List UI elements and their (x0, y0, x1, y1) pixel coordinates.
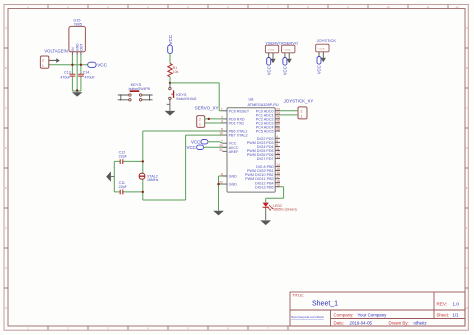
svg-text:VCC: VCC (191, 139, 200, 144)
svg-text:int.hdr: int.hdr (268, 49, 274, 52)
svg-text:Sheet_1: Sheet_1 (312, 301, 338, 308)
svg-text:1.0: 1.0 (453, 301, 460, 306)
svg-text:H: H (466, 306, 468, 310)
svg-text:2: 2 (199, 117, 201, 121)
svg-text:TITLE:: TITLE: (292, 293, 304, 298)
svg-text:10: 10 (219, 132, 223, 136)
svg-text:PD1 TXD: PD1 TXD (229, 121, 245, 125)
svg-text:PC6 RESET: PC6 RESET (229, 109, 250, 113)
svg-text:E: E (5, 186, 7, 190)
svg-text:B: B (466, 66, 468, 70)
svg-text:11: 11 (426, 5, 429, 9)
svg-text:470uF: 470uF (85, 75, 96, 79)
svg-text:JOYSTICK_XY: JOYSTICK_XY (284, 98, 314, 103)
svg-text:OUT: OUT (80, 44, 84, 51)
svg-text:1: 1 (221, 107, 223, 111)
svg-text:https://easyeda.com/rdheitz: https://easyeda.com/rdheitz (291, 315, 325, 319)
svg-text:Date:: Date: (334, 320, 345, 325)
svg-text:10k: 10k (173, 70, 179, 74)
svg-text:A: A (5, 26, 7, 30)
svg-text:C14: C14 (83, 71, 90, 75)
svg-text:10: 10 (386, 5, 390, 9)
svg-text:12: 12 (455, 5, 459, 9)
svg-text:SERVO_XY: SERVO_XY (195, 106, 219, 111)
svg-text:H: H (5, 306, 7, 310)
svg-text:Company:: Company: (334, 312, 354, 317)
svg-text:1: 1 (301, 114, 303, 118)
svg-text:1: 1 (199, 123, 201, 127)
svg-text:REV:: REV: (437, 301, 448, 306)
svg-text:SwitchSH4d2: SwitchSH4d2 (176, 97, 196, 101)
svg-text:PC5 ADC5: PC5 ADC5 (256, 130, 274, 134)
svg-text:0805G (Green): 0805G (Green) (273, 208, 297, 212)
svg-text:E: E (466, 186, 468, 190)
svg-text:VCC: VCC (168, 34, 173, 44)
svg-text:B: B (5, 66, 7, 70)
svg-text:2: 2 (42, 59, 44, 63)
svg-text:rdheitz: rdheitz (414, 320, 427, 325)
svg-text:F: F (466, 226, 468, 230)
svg-text:22pF: 22pF (119, 185, 128, 189)
svg-text:VCC: VCC (97, 63, 107, 68)
svg-text:1: 1 (42, 64, 44, 68)
svg-text:GND: GND (229, 175, 238, 179)
svg-text:PB7 XTAL2: PB7 XTAL2 (229, 134, 248, 138)
svg-text:JOYSTICK: JOYSTICK (317, 38, 337, 43)
svg-text:2: 2 (301, 109, 303, 113)
svg-text:22pF: 22pF (119, 154, 128, 158)
svg-text:Drawn By:: Drawn By: (389, 320, 409, 325)
svg-text:Sheet:: Sheet: (437, 312, 450, 317)
svg-text:VCC: VCC (187, 145, 196, 150)
svg-text:buttonSW4PB: buttonSW4PB (129, 87, 151, 91)
svg-text:1/1: 1/1 (453, 312, 460, 317)
svg-text:13: 13 (276, 155, 280, 159)
svg-text:VCC: VCC (283, 66, 288, 75)
svg-text:int.hdr: int.hdr (285, 49, 291, 52)
svg-text:21: 21 (219, 148, 223, 152)
svg-text:C13: C13 (64, 71, 71, 75)
svg-text:YSERVO: YSERVO (265, 40, 282, 45)
svg-text:VCC: VCC (266, 66, 271, 75)
svg-text:2019-04-05: 2019-04-05 (350, 320, 373, 325)
svg-text:GND: GND (229, 183, 238, 187)
svg-text:DIG7 PD7: DIG7 PD7 (257, 157, 274, 161)
svg-text:XSERVO: XSERVO (281, 40, 298, 45)
svg-text:VOLTAGEIN: VOLTAGEIN (44, 48, 67, 53)
svg-text:AREF: AREF (229, 150, 240, 154)
svg-text:Your Company: Your Company (358, 312, 388, 317)
svg-text:19: 19 (276, 183, 280, 187)
svg-text:28: 28 (276, 128, 280, 132)
svg-text:ATMEGA328P-PU: ATMEGA328P-PU (248, 103, 279, 107)
svg-text:F: F (5, 226, 7, 230)
svg-text:470uF: 470uF (60, 75, 71, 79)
svg-text:16MHz: 16MHz (147, 178, 159, 182)
svg-text:A: A (466, 26, 468, 30)
svg-text:int.hdr: int.hdr (319, 48, 325, 51)
svg-text:VCC: VCC (317, 65, 322, 74)
svg-text:DIG13 PB5: DIG13 PB5 (255, 185, 274, 189)
svg-text:U8: U8 (249, 97, 254, 101)
